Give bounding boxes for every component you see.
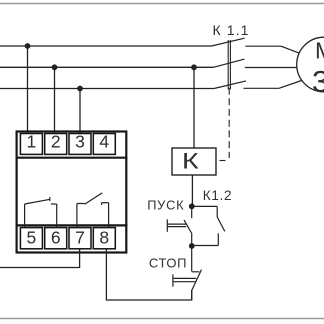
coil K box [172,148,216,175]
relay bottom band divider [16,224,128,226]
svg-text:3: 3 [312,64,324,99]
svg-text:М: М [315,37,324,63]
terminal 5 [20,228,42,249]
contactor K1.1 contact L3 [214,81,302,89]
contactor K1.1 contact L2 [214,59,298,67]
wire L2 to coil K [193,67,195,148]
svg-text:6: 6 [51,227,61,247]
junction dot L3 [77,86,83,92]
wire L2 drop to terminal 2 [54,67,56,133]
svg-text:К 1.1: К 1.1 [213,22,250,38]
svg-text:К: К [182,148,199,173]
terminal 2 [45,134,67,155]
contactor K1.1 contact L1 [212,38,299,53]
svg-text:8: 8 [99,227,109,247]
terminal 7 [69,228,91,249]
wire terminal 7 down-left to edge [0,249,80,268]
svg-text:4: 4 [99,132,109,152]
relay contact 7-8 open [77,193,109,228]
motor M circle [297,37,324,92]
relay top band divider [16,157,128,159]
svg-text:7: 7 [75,227,85,247]
svg-text:СТОП: СТОП [149,256,187,271]
contact K1.2 branch [192,206,225,245]
terminal 4 [93,134,115,155]
STOP actuator [173,274,196,286]
svg-text:2: 2 [51,132,61,152]
terminal 3 [69,134,91,155]
relay body outline [17,132,127,253]
relay contact 5-6 closed [25,197,57,228]
node A junction dot [189,203,195,209]
wire L3 drop to terminal 3 [79,89,81,134]
svg-text:1: 1 [27,132,37,152]
svg-text:3: 3 [75,132,85,152]
frame bottom border [0,318,324,320]
wire L2 horizontal [0,66,214,68]
linkage dashed line to coil [220,88,230,161]
svg-text:ПУСК: ПУСК [147,197,184,212]
terminal 8 [93,228,115,249]
push button PUSK (NO) [184,206,192,246]
contactor K1.1 linkage bars [228,40,230,90]
PUSK actuator [167,219,186,231]
terminal 6 [45,228,67,249]
frame top border [0,3,324,5]
wire coil K to node A [191,175,193,206]
junction dot L2 [52,64,58,70]
wire terminal 8 down to stop button [106,249,191,300]
junction dot L2 to coil [191,64,197,70]
node B junction dot [189,243,195,249]
svg-text:5: 5 [27,227,37,247]
wire L1 drop to terminal 1 [27,46,29,133]
wire L3 horizontal [0,88,214,90]
terminal 1 [20,134,42,155]
push button STOP (NC) [192,246,202,300]
svg-text:К1.2: К1.2 [203,188,232,203]
junction dot L1 [25,43,31,49]
wire L1 horizontal [0,45,212,47]
